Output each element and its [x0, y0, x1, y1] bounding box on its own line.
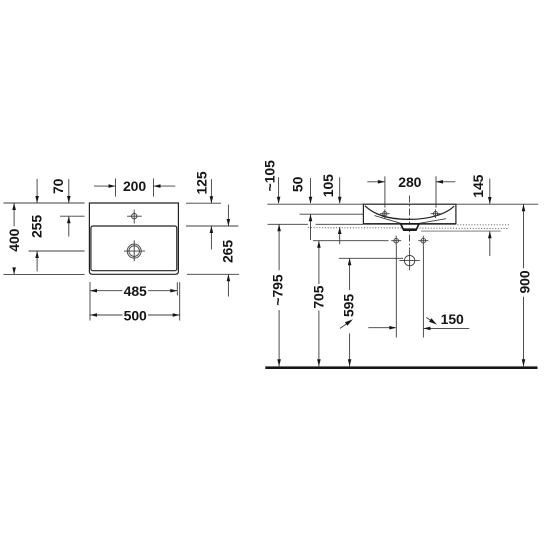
gray reference line [421, 230, 500, 232]
extension line faucet axis [60, 215, 85, 217]
extension line top edge (right) [186, 202, 221, 204]
bolt extension line left [395, 246, 397, 338]
line at basin underside level [268, 223, 308, 225]
dim 400 [6, 203, 22, 274]
svg-text:400: 400 [6, 228, 22, 251]
svg-text:~105: ~105 [261, 160, 277, 191]
dim 255 [29, 179, 45, 271]
dim 105 [320, 174, 341, 244]
basin outer rim [89, 203, 178, 274]
dim 200 [94, 178, 175, 196]
line at deck-hole level [300, 213, 364, 215]
extension line bottom edge (left) [4, 273, 85, 275]
centre line [409, 196, 411, 250]
svg-text:595: 595 [341, 294, 357, 317]
svg-text:500: 500 [124, 307, 147, 323]
extension line drain axis [29, 250, 85, 252]
basin underside edge [363, 223, 456, 225]
svg-text:705: 705 [310, 285, 326, 308]
dim 265 [219, 205, 235, 297]
extension line inner front edge (right) [186, 225, 238, 227]
extension line drain level [339, 257, 403, 259]
svg-text:50: 50 [290, 176, 306, 192]
basin inner rim curve [365, 206, 454, 220]
extension line bottom edge (right) [187, 273, 239, 275]
hidden dotted line right of basin [457, 224, 510, 226]
dim 595 [340, 258, 357, 366]
dim 280 [367, 174, 455, 208]
svg-text:485: 485 [124, 283, 147, 299]
svg-text:265: 265 [219, 240, 235, 263]
drain hole [124, 240, 145, 261]
svg-text:900: 900 [517, 270, 533, 293]
deck hole left [380, 209, 390, 218]
basin body front [363, 204, 456, 224]
dim ~795 [269, 224, 285, 366]
drain trap [401, 224, 419, 231]
svg-text:145: 145 [470, 174, 486, 197]
dim 50 [290, 176, 313, 240]
hidden dotted line full width [308, 227, 509, 230]
extension line bolt level [313, 240, 389, 242]
bolt extension line right [422, 246, 424, 338]
bolt hole right [418, 236, 428, 246]
dim 900 [517, 204, 533, 366]
dim 500 [90, 282, 180, 323]
wall line at rim level, right segment [456, 203, 538, 205]
floor line [265, 366, 537, 369]
svg-text:105: 105 [320, 174, 336, 197]
faucet hole [127, 210, 142, 224]
svg-text:~795: ~795 [269, 274, 285, 305]
dim 705 [310, 241, 326, 367]
dim 485 [90, 282, 177, 321]
basin inner bowl [91, 226, 177, 271]
dim ~105 [261, 160, 280, 204]
dim 150 [368, 311, 469, 330]
extension line top edge (left) [4, 202, 85, 204]
deck hole right [431, 209, 441, 218]
svg-text:200: 200 [123, 178, 146, 194]
bowl slope right [419, 219, 446, 224]
svg-text:280: 280 [398, 174, 421, 190]
dim 145 [470, 174, 492, 256]
svg-text:255: 255 [29, 215, 45, 238]
dim 125 [194, 171, 214, 249]
bolt hole left [391, 236, 401, 246]
dim 70 [50, 178, 70, 236]
bowl slope left [375, 216, 402, 224]
wall line at rim level, left segment [267, 203, 363, 205]
svg-text:70: 70 [50, 178, 66, 194]
drain outlet circle [399, 250, 419, 270]
svg-text:125: 125 [194, 171, 210, 194]
svg-text:150: 150 [441, 311, 464, 327]
